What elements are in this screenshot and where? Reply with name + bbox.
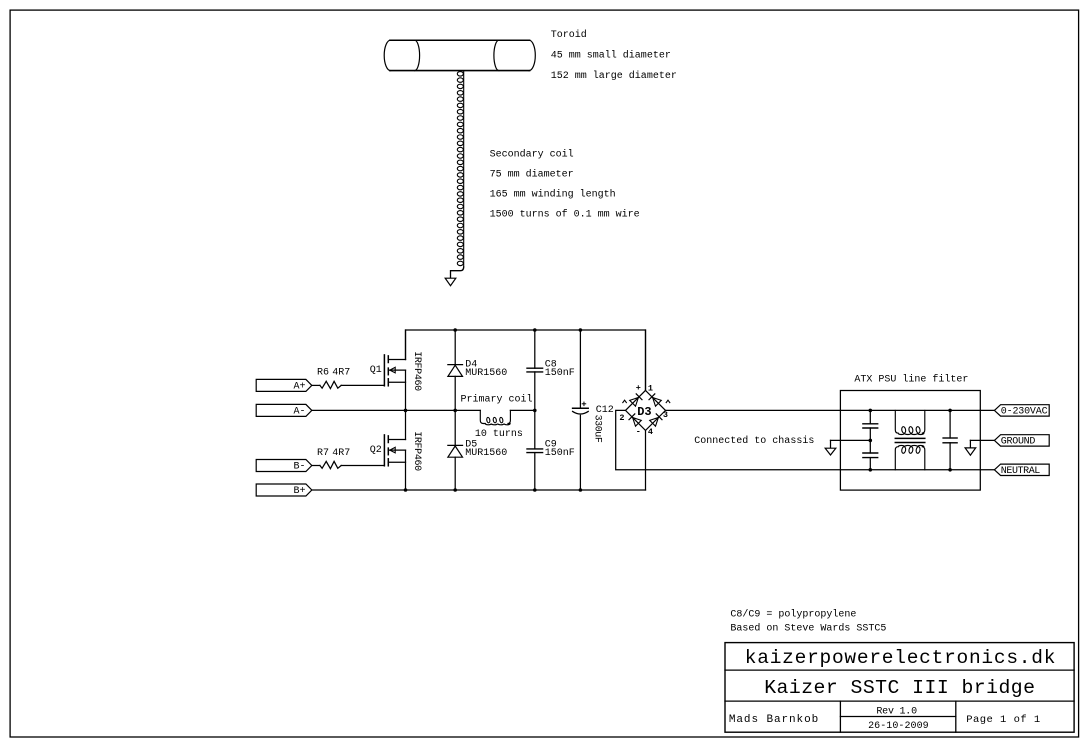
svg-text:Primary coil: Primary coil <box>461 393 533 405</box>
svg-text:IRFP460: IRFP460 <box>411 431 422 471</box>
svg-text:D3: D3 <box>637 405 651 419</box>
svg-text:MUR1560: MUR1560 <box>465 448 507 459</box>
svg-text:Q1: Q1 <box>370 365 382 376</box>
svg-text:Connected to chassis: Connected to chassis <box>694 435 814 447</box>
svg-text:150nF: 150nF <box>545 448 575 459</box>
svg-text:B-: B- <box>293 462 305 473</box>
svg-text:165 mm winding length: 165 mm winding length <box>490 189 616 201</box>
svg-text:150nF: 150nF <box>545 368 575 379</box>
svg-text:1500 turns of 0.1 mm wire: 1500 turns of 0.1 mm wire <box>490 209 640 221</box>
svg-text:4R7: 4R7 <box>332 368 350 379</box>
svg-text:2: 2 <box>619 413 624 423</box>
svg-text:R7: R7 <box>317 448 329 459</box>
svg-text:26-10-2009: 26-10-2009 <box>868 721 929 732</box>
svg-text:4: 4 <box>648 427 653 437</box>
svg-text:NEUTRAL: NEUTRAL <box>1001 466 1041 477</box>
svg-text:ATX PSU line filter: ATX PSU line filter <box>854 373 968 385</box>
svg-text:4R7: 4R7 <box>332 448 350 459</box>
svg-text:Based on Steve Wards SSTC5: Based on Steve Wards SSTC5 <box>730 623 886 635</box>
svg-text:MUR1560: MUR1560 <box>465 368 507 379</box>
svg-text:A-: A- <box>293 407 305 418</box>
svg-text:152 mm large diameter: 152 mm large diameter <box>551 70 677 82</box>
svg-text:R6: R6 <box>317 368 329 379</box>
svg-text:10 turns: 10 turns <box>475 429 523 440</box>
svg-text:IRFP460: IRFP460 <box>411 351 422 391</box>
svg-text:kaizerpowerelectronics.dk: kaizerpowerelectronics.dk <box>745 647 1056 669</box>
svg-text:Page 1 of 1: Page 1 of 1 <box>966 714 1040 726</box>
svg-text:3: 3 <box>663 410 668 420</box>
svg-text:Toroid: Toroid <box>551 29 587 41</box>
svg-text:Secondary coil: Secondary coil <box>490 149 574 161</box>
svg-text:+: + <box>636 383 641 393</box>
svg-text:1: 1 <box>648 383 653 393</box>
svg-text:45 mm small diameter: 45 mm small diameter <box>551 49 671 61</box>
svg-text:75 mm diameter: 75 mm diameter <box>490 169 574 181</box>
svg-text:Q2: Q2 <box>370 445 382 456</box>
svg-text:A+: A+ <box>293 382 305 393</box>
svg-text:0-230VAC: 0-230VAC <box>1001 407 1048 418</box>
svg-text:Mads Barnkob: Mads Barnkob <box>729 714 818 726</box>
svg-text:Kaizer SSTC III bridge: Kaizer SSTC III bridge <box>764 677 1035 699</box>
svg-text:-: - <box>636 426 641 436</box>
svg-text:C8/C9 = polypropylene: C8/C9 = polypropylene <box>730 608 856 620</box>
svg-text:GROUND: GROUND <box>1001 437 1036 448</box>
svg-text:Rev 1.0: Rev 1.0 <box>876 707 917 718</box>
svg-text:330uF: 330uF <box>591 415 602 443</box>
svg-text:B+: B+ <box>293 486 305 497</box>
